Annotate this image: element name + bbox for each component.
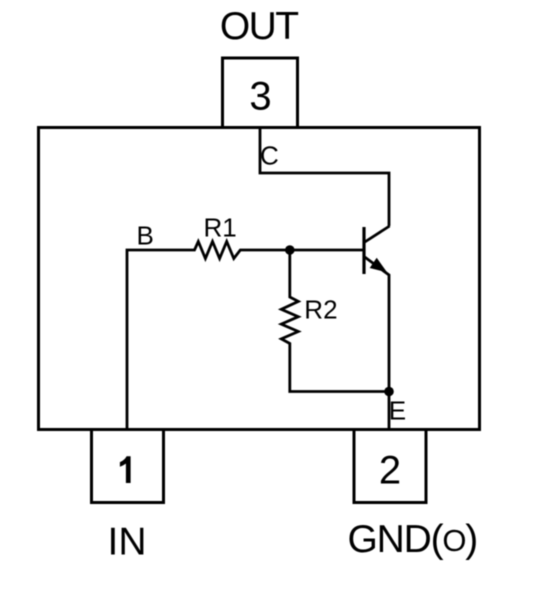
svg-text:GND(O): GND(O)	[348, 518, 478, 561]
svg-text:R2: R2	[304, 295, 337, 325]
svg-text:IN: IN	[108, 521, 147, 564]
svg-text:OUT: OUT	[220, 5, 298, 48]
svg-text:R1: R1	[204, 213, 237, 243]
svg-text:C: C	[260, 141, 279, 171]
svg-text:B: B	[137, 221, 154, 251]
svg-text:E: E	[389, 396, 406, 426]
svg-text:3: 3	[249, 75, 271, 119]
svg-text:2: 2	[379, 448, 401, 492]
